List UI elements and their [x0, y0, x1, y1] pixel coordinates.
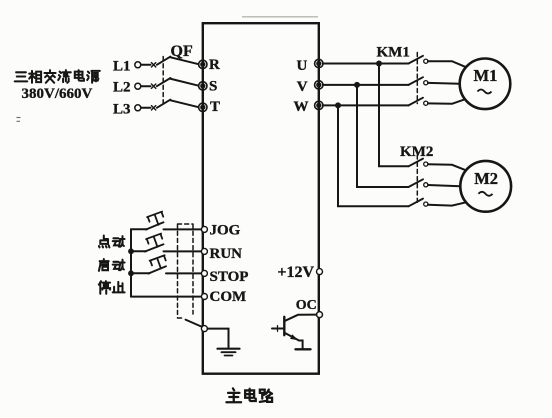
- svg-text:STOP: STOP: [210, 269, 249, 285]
- svg-text:380V/660V: 380V/660V: [22, 86, 93, 102]
- svg-text:M1: M1: [474, 66, 498, 85]
- svg-text:T: T: [210, 99, 220, 115]
- svg-text:+12V: +12V: [277, 264, 314, 281]
- svg-text:R: R: [209, 57, 220, 73]
- svg-text:OC: OC: [296, 298, 317, 313]
- svg-text:COM: COM: [210, 289, 247, 305]
- svg-text:L3: L3: [113, 101, 131, 117]
- svg-text:JOG: JOG: [210, 223, 241, 239]
- svg-text:V: V: [297, 79, 308, 95]
- svg-text:W: W: [294, 99, 309, 115]
- svg-text:L1: L1: [113, 58, 131, 74]
- svg-text:QF: QF: [171, 43, 193, 60]
- svg-text:RUN: RUN: [210, 246, 243, 262]
- svg-text:KM2: KM2: [400, 144, 433, 160]
- svg-text:S: S: [209, 78, 217, 94]
- svg-text:L2: L2: [113, 80, 131, 96]
- svg-text:KM1: KM1: [377, 45, 410, 61]
- svg-text:U: U: [297, 58, 308, 74]
- svg-text:M2: M2: [474, 169, 498, 188]
